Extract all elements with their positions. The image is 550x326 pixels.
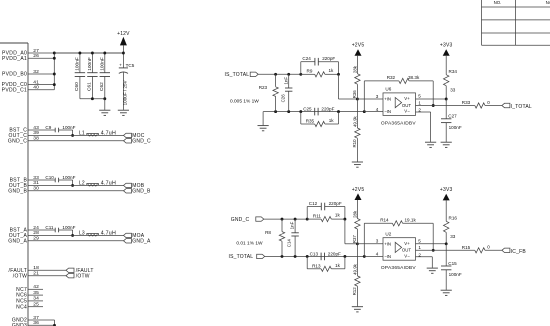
- wire V+: [416, 98, 448, 101]
- pin 40 PVDD_C1: [2, 85, 55, 94]
- svg-text:100uF / 25V: 100uF / 25V: [123, 79, 128, 105]
- svg-text:R15: R15: [462, 245, 471, 250]
- svg-text:0.005 1% 1W: 0.005 1% 1W: [230, 98, 259, 104]
- svg-text:C26: C26: [280, 94, 285, 103]
- capacitor C12 220pF: [307, 201, 346, 221]
- svg-text:−IN: −IN: [384, 109, 391, 114]
- pin 42 NC7: [16, 284, 43, 293]
- svg-text:/OTW: /OTW: [13, 273, 27, 279]
- svg-text:100nF: 100nF: [87, 57, 93, 71]
- svg-text:4.7uH: 4.7uH: [101, 130, 116, 136]
- svg-text:28k: 28k: [352, 210, 357, 218]
- svg-text:3: 3: [376, 239, 379, 244]
- svg-text:1: 1: [418, 100, 421, 105]
- svg-text:100nF: 100nF: [62, 125, 75, 130]
- capacitor C13 220pF: [310, 252, 341, 261]
- resistor R15 0: [416, 245, 502, 253]
- pin 39 OUT_C: [8, 130, 123, 139]
- inductor L2 4.7uH: [79, 180, 116, 186]
- resistor R10 49.9k: [352, 99, 360, 162]
- svg-text:49.9k: 49.9k: [352, 263, 357, 275]
- capacitor C11 100nF bootstrap: [45, 225, 75, 232]
- capacitor C62 100nF: [99, 52, 110, 99]
- svg-text:R13: R13: [312, 263, 321, 268]
- pin 27 PVDD_A0: [2, 48, 123, 57]
- resistor R11 1k: [307, 213, 345, 222]
- pin 33 BST_B: [10, 175, 55, 184]
- resistor R16 33: [444, 200, 458, 243]
- ground C15: [441, 290, 452, 295]
- pin 25 NC4: [16, 302, 43, 311]
- svg-text:U2: U2: [385, 231, 391, 236]
- resistor R32 38.3k: [364, 75, 434, 112]
- svg-text:OPA365AIDBV: OPA365AIDBV: [381, 265, 416, 271]
- svg-text:C10: C10: [45, 175, 54, 180]
- svg-text:PVDD_A1: PVDD_A1: [2, 56, 27, 62]
- svg-text:5: 5: [418, 238, 421, 243]
- svg-text:+IN: +IN: [384, 241, 391, 246]
- terminal IC_FB: [502, 248, 526, 255]
- pin 35 NC6: [16, 290, 43, 299]
- ground sense network: [258, 112, 269, 131]
- pin 43 BST_C: [9, 125, 55, 134]
- svg-text:100nF: 100nF: [100, 57, 106, 71]
- svg-text:100nF: 100nF: [449, 125, 462, 130]
- svg-text:R23: R23: [259, 85, 268, 90]
- svg-text:C25: C25: [303, 107, 312, 112]
- svg-text:1k: 1k: [329, 68, 335, 73]
- svg-text:C61: C61: [87, 82, 93, 91]
- svg-text:28k: 28k: [352, 65, 357, 73]
- junction PVDD bus dots: [53, 52, 56, 87]
- svg-text:C27: C27: [448, 114, 457, 119]
- op-amp U2 OPA365AIDBV: [376, 231, 422, 271]
- power +3V3: [440, 187, 453, 200]
- power +3V3: [440, 43, 453, 56]
- wire input top: [258, 73, 302, 76]
- svg-text:R37: R37: [352, 235, 357, 244]
- svg-text:I_TOTAL: I_TOTAL: [511, 104, 532, 110]
- capacitor C15 100nF: [441, 244, 462, 290]
- wire V-: [416, 112, 431, 142]
- svg-text:GND_B: GND_B: [132, 189, 151, 195]
- svg-text:PVDD_B0: PVDD_B0: [2, 72, 27, 78]
- wire -IN: [364, 111, 383, 113]
- svg-text:GND_A: GND_A: [132, 239, 151, 245]
- terminal GND_C: [231, 217, 264, 223]
- svg-text:+IN: +IN: [384, 97, 391, 102]
- svg-text:4: 4: [376, 107, 379, 112]
- svg-text:1k: 1k: [329, 118, 335, 123]
- svg-text:R36: R36: [352, 90, 357, 99]
- capacitor C60 100nF: [74, 52, 85, 99]
- svg-text:100nF: 100nF: [62, 175, 75, 180]
- svg-text:1k: 1k: [335, 213, 341, 218]
- svg-text:PVDD_C1: PVDD_C1: [2, 87, 28, 93]
- ground V-: [427, 268, 438, 273]
- pin 28 OUT_A: [9, 230, 124, 239]
- resistor R13 1k: [307, 256, 345, 271]
- pin 21 /OTW: [13, 271, 66, 280]
- svg-text:220pF: 220pF: [322, 56, 335, 61]
- svg-text:+3V3: +3V3: [440, 187, 453, 193]
- terminal GND_B: [124, 189, 151, 195]
- svg-text:IS_TOTAL: IS_TOTAL: [225, 72, 250, 78]
- resistor R33 0: [416, 100, 502, 108]
- pin 24 BST_A: [10, 225, 55, 234]
- svg-text:0: 0: [487, 100, 490, 105]
- wire cap bank bottom: [80, 97, 106, 100]
- svg-text:R35: R35: [306, 119, 315, 124]
- svg-text:19.1k: 19.1k: [405, 217, 417, 222]
- op-amp U6 OPA365AIDBV: [376, 87, 422, 127]
- svg-text:R32: R32: [387, 75, 396, 80]
- svg-text:R9: R9: [307, 69, 313, 74]
- wire GND2 tie: [53, 320, 56, 326]
- svg-text:R11: R11: [313, 213, 322, 218]
- wire bottom node: [265, 255, 366, 258]
- svg-text:220pF: 220pF: [321, 107, 334, 112]
- wire PVDD bus vertical: [53, 53, 55, 90]
- resistor R36 28k: [352, 56, 360, 99]
- capacitor C27 100nF: [441, 99, 462, 142]
- terminal /FAULT: [66, 268, 94, 274]
- svg-text:R12: R12: [352, 287, 357, 296]
- wire bottom node: [263, 110, 366, 113]
- power +2V5: [352, 43, 365, 56]
- svg-text:4: 4: [376, 252, 379, 257]
- pin 37 GND2: [12, 315, 55, 324]
- capacitor TC5 100uF/25V polarized: [119, 52, 135, 110]
- svg-text:L3: L3: [79, 230, 85, 236]
- svg-text:NA: NA: [546, 0, 550, 5]
- svg-text:OUT: OUT: [402, 248, 412, 253]
- ground cap bank: [99, 99, 110, 116]
- svg-text:+: +: [119, 63, 122, 68]
- svg-text:C62: C62: [99, 82, 105, 91]
- terminal MOA: [124, 233, 145, 239]
- pin 34 NC5: [16, 296, 43, 305]
- inductor L3 4.7uH: [79, 230, 116, 236]
- svg-text:IS_TOTAL: IS_TOTAL: [229, 254, 254, 260]
- table revision block: [482, 0, 550, 45]
- svg-text:L1: L1: [79, 130, 85, 136]
- svg-text:NC4: NC4: [16, 304, 27, 310]
- wire bootstrap to OUT: [59, 130, 74, 137]
- svg-text:1k: 1k: [335, 263, 341, 268]
- svg-text:C11: C11: [45, 225, 54, 230]
- svg-text:C60: C60: [74, 82, 80, 91]
- pin 18 /FAULT: [9, 265, 66, 274]
- terminal /OTW: [66, 273, 90, 279]
- wire to +IN: [339, 74, 384, 100]
- resistor R8 0.01 1% 1W: [236, 219, 284, 256]
- capacitor C14 1nF: [287, 219, 299, 256]
- svg-text:1nF: 1nF: [290, 221, 295, 229]
- terminal GND_C: [124, 139, 151, 145]
- capacitor C10 100nF bootstrap: [45, 175, 75, 182]
- capacitor C61 100nF: [87, 52, 98, 99]
- svg-text:4.7uH: 4.7uH: [101, 230, 116, 236]
- svg-text:+3V3: +3V3: [440, 43, 453, 49]
- pin 38 GND_C: [8, 136, 124, 145]
- svg-text:GND_C: GND_C: [231, 217, 250, 223]
- pin 31 OUT_B: [9, 180, 124, 189]
- svg-text:0.01 1% 1W: 0.01 1% 1W: [236, 241, 263, 247]
- IC U1 power-stage body edge: [0, 43, 28, 326]
- svg-text:GND_A: GND_A: [8, 238, 27, 244]
- svg-text:GND_B: GND_B: [8, 188, 27, 194]
- resistor R14 19.1k: [364, 217, 434, 256]
- pin 26 PVDD_A1: [2, 53, 54, 62]
- svg-text:4.7uH: 4.7uH: [101, 180, 116, 186]
- svg-text:C12: C12: [309, 201, 318, 206]
- wire input top: [264, 218, 309, 221]
- pin 29 GND_A: [8, 236, 123, 245]
- resistor R35 1k: [301, 112, 339, 127]
- ground V-: [425, 142, 436, 147]
- inductor L1 4.7uH: [79, 130, 116, 136]
- svg-text:R14: R14: [380, 217, 389, 222]
- svg-text:C15: C15: [448, 261, 457, 266]
- svg-text:+2V5: +2V5: [352, 43, 365, 49]
- ground R10: [352, 162, 363, 167]
- resistor R9 1k: [301, 68, 339, 77]
- svg-text:38.3k: 38.3k: [408, 75, 420, 80]
- svg-text:0: 0: [487, 245, 490, 250]
- svg-text:220pF: 220pF: [328, 252, 341, 257]
- wire -IN: [364, 255, 383, 257]
- terminal I_TOTAL: [502, 103, 532, 110]
- svg-text:C24: C24: [302, 56, 311, 61]
- svg-text:220pF: 220pF: [329, 201, 342, 206]
- svg-text:−IN: −IN: [384, 254, 391, 259]
- svg-text:R10: R10: [352, 139, 357, 148]
- svg-text:R16: R16: [449, 216, 458, 221]
- svg-text:33: 33: [450, 88, 456, 93]
- svg-text:R8: R8: [265, 230, 271, 235]
- terminal MOC: [124, 133, 145, 139]
- pin 30 GND_B: [8, 186, 123, 195]
- svg-text:NO.: NO.: [494, 0, 502, 5]
- ground R12: [352, 307, 363, 312]
- wire bootstrap to OUT: [59, 180, 74, 187]
- capacitor C26 1nF: [280, 74, 292, 111]
- wire V+: [416, 242, 448, 245]
- ground C27: [441, 142, 452, 147]
- svg-text:C13: C13: [310, 252, 319, 257]
- wire V-: [416, 257, 433, 268]
- svg-text:U6: U6: [385, 87, 391, 92]
- capacitor C9 100nF bootstrap: [45, 125, 75, 132]
- power +2V5: [352, 187, 365, 200]
- pin 41 PVDD_C0: [2, 79, 55, 88]
- svg-text:C14: C14: [287, 239, 292, 248]
- svg-text:49.9k: 49.9k: [352, 115, 357, 127]
- wire bootstrap to OUT: [59, 230, 74, 237]
- svg-text:+2V5: +2V5: [352, 187, 365, 193]
- svg-text:R33: R33: [462, 100, 471, 105]
- svg-text:100nF: 100nF: [75, 57, 81, 71]
- svg-text:R34: R34: [449, 69, 458, 74]
- svg-text:OPA365AIDBV: OPA365AIDBV: [381, 120, 416, 126]
- pin 36 GND3: [12, 320, 55, 326]
- ground TC5: [118, 110, 129, 115]
- resistor R37 28k: [352, 200, 360, 244]
- capacitor C24 220pF: [301, 56, 340, 76]
- svg-text:3: 3: [376, 94, 379, 99]
- resistor R23 0.005 1% 1W: [230, 74, 278, 111]
- svg-text:L2: L2: [79, 180, 85, 186]
- svg-text:C9: C9: [45, 125, 51, 130]
- terminal IS_TOTAL: [229, 254, 265, 260]
- svg-text:+12V: +12V: [117, 31, 130, 37]
- svg-text:OUT: OUT: [402, 103, 412, 108]
- svg-text:IC_FB: IC_FB: [511, 249, 527, 255]
- svg-text:GND_C: GND_C: [132, 139, 151, 145]
- svg-text:V−: V−: [404, 109, 410, 114]
- terminal IS_TOTAL: [225, 72, 259, 78]
- resistor R34 33: [444, 56, 458, 99]
- resistor R12 49.9k: [352, 244, 360, 307]
- svg-text:/OTW: /OTW: [76, 273, 90, 279]
- svg-text:TC5: TC5: [126, 63, 135, 68]
- power +12V: [117, 31, 130, 53]
- wire to +IN: [345, 219, 383, 245]
- svg-text:1nF: 1nF: [283, 77, 288, 85]
- capacitor C25 220pF: [303, 107, 334, 116]
- svg-text:33: 33: [450, 234, 456, 239]
- svg-text:V−: V−: [404, 253, 410, 258]
- wire +12V rail: [54, 52, 123, 54]
- svg-text:100nF: 100nF: [449, 272, 462, 277]
- svg-text:1: 1: [418, 245, 421, 250]
- svg-text:V+: V+: [404, 241, 410, 246]
- svg-text:100nF: 100nF: [62, 225, 75, 230]
- svg-text:GND_C: GND_C: [8, 138, 27, 144]
- svg-text:V+: V+: [404, 96, 410, 101]
- terminal MOB: [124, 183, 145, 189]
- svg-text:5: 5: [418, 94, 421, 99]
- pin 32 PVDD_B0: [2, 69, 54, 78]
- terminal GND_A: [124, 239, 151, 245]
